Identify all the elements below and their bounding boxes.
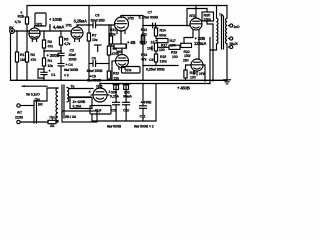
wire R5 drop (60, 31, 62, 37)
wire R10 column (108, 64, 110, 72)
svg-text:1кО: 1кО (233, 25, 239, 29)
capacitor C4 (58, 64, 64, 81)
wire AC top (20, 105, 34, 107)
resistor R12b (141, 36, 144, 45)
capacitor C3 (93, 22, 96, 28)
wire R3L stubs (206, 9, 208, 13)
svg-text:30мА: 30мА (123, 95, 132, 99)
svg-text:+ 4В: + 4В (127, 40, 135, 45)
wire R14 to R17h (155, 36, 157, 39)
svg-text:0, 25м/ 300В: 0, 25м/ 300В (139, 16, 159, 20)
resistor R3L (202, 12, 214, 21)
capacitor C7 (152, 23, 156, 29)
svg-text:0,25м/ 300В: 0,25м/ 300В (146, 68, 165, 72)
node dots rails (43, 5, 217, 85)
svg-text:2А: 2А (50, 124, 55, 128)
svg-text:УЛ6: УЛ6 (199, 72, 205, 76)
svg-text:30м/ 2КВ: 30м/ 2КВ (91, 19, 106, 23)
svg-text:С11: С11 (140, 115, 146, 119)
box above UL1a (35, 13, 46, 26)
svg-text:123мА: 123мА (194, 41, 206, 46)
svg-text:R17: R17 (170, 39, 176, 43)
wire UL6 right drop (203, 65, 205, 80)
svg-text:3,25мА: 3,25мА (74, 19, 87, 24)
svg-text:220В: 220В (15, 116, 24, 120)
resistor R19 (184, 70, 187, 78)
wire R11 drop (110, 25, 112, 36)
svg-text:4,7к: 4,7к (15, 20, 22, 24)
wire choke1 to C9 (115, 90, 117, 103)
svg-text:R19: R19 (190, 71, 196, 75)
wire PSU bottom rail (92, 120, 156, 122)
svg-text:УЛ1: УЛ1 (66, 24, 72, 28)
wire Tr2 to rectifier top (69, 88, 93, 90)
wire UL4 left stub (112, 60, 116, 62)
resistor R26 (25, 17, 28, 24)
svg-text:R13: R13 (141, 53, 147, 57)
resistor R7 (87, 33, 90, 41)
resistor R10 (107, 71, 110, 79)
svg-text:300к: 300к (159, 34, 167, 38)
svg-text:Ом: Ом (35, 98, 41, 102)
svg-text:100: 100 (190, 76, 196, 80)
resistor R14 (154, 28, 157, 36)
tube UL5 side stubs (91, 94, 93, 96)
wire PSU left column (125, 84, 127, 86)
svg-text:4,7к: 4,7к (64, 42, 71, 46)
transformer Tr1 primary (210, 6, 218, 51)
wire C7 row (143, 25, 190, 27)
svg-text:R11: R11 (110, 28, 116, 32)
svg-text:УЛ4: УЛ4 (125, 69, 131, 73)
wire grid row to R18 (158, 46, 169, 48)
wire R14 drop (155, 26, 157, 29)
svg-text:R2Б: R2Б (18, 15, 25, 19)
wire R9 column (108, 25, 110, 46)
box tube type (90, 106, 111, 115)
capacitor C9 (113, 102, 120, 121)
wire UL2 grid tap (187, 9, 207, 26)
terminal OUT3 (230, 45, 233, 48)
wire AC bottom (20, 121, 48, 123)
svg-text:С7: С7 (148, 11, 152, 15)
node F (108, 24, 110, 26)
svg-text:0,15А: 0,15А (73, 105, 82, 109)
node E (60, 50, 62, 52)
wire R7 column from rail (88, 6, 90, 34)
svg-text:100: 100 (159, 48, 165, 52)
terminal OUT2 (230, 37, 233, 40)
wire bottom ground rail (11, 79, 228, 81)
wire UL2 cathode path (184, 34, 193, 44)
svg-text:АС: АС (17, 111, 22, 115)
resistor R9 (107, 46, 110, 55)
resistor R18 (169, 45, 180, 49)
wire output taps (229, 25, 230, 27)
svg-text:8м/ 300В × 2: 8м/ 300В × 2 (134, 125, 154, 129)
wire R4 to C1 (43, 66, 45, 72)
resistor R17h (157, 39, 168, 43)
wire R11 to R12 (111, 44, 114, 46)
node H (155, 25, 157, 27)
wire UL6 left to R19 (186, 65, 192, 70)
AC terminal 2 (17, 120, 20, 123)
wire R19 to rail (185, 78, 187, 80)
resistor R4 (42, 58, 45, 66)
box label UL4 (122, 67, 141, 74)
svg-text:22к: 22к (114, 77, 120, 81)
svg-text:470к: 470к (112, 52, 120, 56)
wire C7 column down (142, 26, 144, 81)
capacitor C5 (93, 61, 96, 67)
wire x112 column (111, 61, 113, 80)
svg-text:6Ц4: 6Ц4 (95, 109, 101, 113)
svg-text:47к: 47к (141, 58, 147, 62)
resistor R17v (154, 43, 157, 51)
svg-text:+ 300В: + 300В (47, 53, 60, 58)
wire R17v to R15 (155, 51, 157, 54)
annotation arrow +100V (49, 25, 51, 32)
svg-text:100: 100 (170, 44, 176, 48)
wire R26 to node B (26, 24, 28, 52)
svg-text:10к: 10к (92, 38, 98, 42)
svg-text:R3: R3 (48, 40, 52, 44)
transformer Tr2 winding primary (56, 88, 58, 121)
fuse FU (48, 120, 56, 123)
svg-text:R15: R15 (160, 55, 166, 59)
resistor R1 (15, 52, 18, 62)
svg-text:С9: С9 (112, 108, 116, 112)
svg-text:Пр1: Пр1 (50, 115, 56, 119)
svg-text:УЛ1: УЛ1 (36, 23, 42, 27)
wire hbox left stub (156, 40, 157, 42)
wire R3 to +200V node (43, 48, 45, 51)
terminal OUT1 (230, 24, 233, 27)
node B (26, 30, 28, 32)
node G (110, 24, 112, 26)
svg-text:3в 3,1кО: 3в 3,1кО (26, 93, 40, 97)
transformer Tr1 core (222, 16, 224, 49)
svg-text:R4: R4 (48, 59, 52, 63)
svg-text:0,15А: 0,15А (110, 95, 119, 99)
tube UL1b (71, 25, 83, 42)
svg-text:С3: С3 (95, 14, 99, 18)
tube UL4 (116, 55, 129, 68)
AC terminal 1 (17, 104, 20, 107)
node J (204, 80, 206, 82)
svg-text:8м/ 500В: 8м/ 500В (87, 79, 102, 83)
svg-text:R22: R22 (184, 50, 190, 54)
svg-text:47к: 47к (141, 32, 147, 36)
wire Tr2 to rectifier bottom (69, 96, 91, 98)
wire R9 bottom (108, 55, 110, 64)
winding info box 1 (70, 98, 92, 109)
wire R15 to bias row (155, 62, 157, 66)
svg-text:R5: R5 (64, 38, 68, 42)
tube UL2 (190, 6, 202, 60)
choke L1 (113, 84, 120, 90)
wire input jack to grid (15, 30, 30, 32)
svg-text:20м/: 20м/ (69, 53, 76, 57)
node C (43, 30, 45, 32)
svg-text:R17: R17 (161, 44, 167, 48)
svg-text:470: 470 (31, 58, 37, 62)
tube UL5 rectifier (93, 84, 107, 103)
wire fuse to Tr2 (56, 121, 58, 123)
svg-text:1М: 1М (20, 58, 25, 62)
svg-text:200В: 200В (69, 58, 78, 62)
wire C3 to UL3 grid (96, 24, 115, 26)
capacitor C2 (58, 51, 64, 64)
wire R4 drop (43, 51, 45, 58)
wire jack ground drop (10, 33, 12, 80)
capacitor C1 (41, 72, 47, 80)
switch SA (34, 101, 37, 123)
tube UL6 (191, 59, 203, 75)
transformer Tr2 winding secondary (67, 88, 69, 102)
wire R10 to rail (108, 79, 110, 80)
svg-text:R14: R14 (160, 29, 166, 33)
wire R7 to bottom rail (88, 41, 90, 80)
wire B+ rail y85 (100, 83, 210, 85)
svg-text:R10: R10 (113, 72, 119, 76)
svg-text:47к: 47к (48, 45, 54, 49)
svg-text:УЛ3: УЛ3 (128, 17, 134, 21)
svg-text:5В / 3А: 5В / 3А (65, 115, 77, 119)
svg-text:× 3: × 3 (64, 74, 69, 78)
svg-text:R9: R9 (113, 47, 117, 51)
svg-text:2Вт: 2Вт (183, 58, 189, 62)
wire choke2 to C10 (125, 90, 127, 103)
svg-text:130к: 130к (160, 60, 168, 64)
wire C5 row (89, 63, 93, 65)
wire R1 drop (16, 31, 18, 52)
node D (60, 30, 62, 32)
ground stub (95, 45, 102, 52)
svg-text:С2: С2 (70, 49, 74, 53)
transformer Tr2 core (62, 85, 64, 118)
wire PSU right edge (155, 84, 157, 122)
svg-text:R2: R2 (31, 53, 35, 57)
node A (16, 30, 18, 32)
choke L2 (123, 84, 130, 90)
wire R1 to rail (16, 62, 18, 80)
svg-text:4,4мА: 4,4мА (53, 25, 64, 30)
wire +200V node (44, 50, 61, 52)
wire C5 to C6 column (96, 63, 109, 65)
resistor R12 (114, 44, 126, 48)
svg-text:100: 100 (147, 47, 153, 51)
capacitor C11 (140, 106, 147, 121)
svg-text:+ 100В: + 100В (49, 17, 62, 22)
wire switch to Tr2 top (34, 88, 58, 101)
wire interstage y31 (40, 30, 71, 32)
svg-text:R7: R7 (92, 34, 96, 38)
wire R3 drop (43, 31, 45, 40)
resistor R2 (25, 52, 28, 62)
resistor R5 (59, 37, 62, 45)
resistor R3 (42, 40, 45, 48)
wire rect box to bottom rail (91, 114, 93, 121)
svg-text:R1: R1 (20, 53, 24, 57)
winding info box 2 (62, 111, 97, 122)
svg-text:РР1/: РР1/ (140, 41, 147, 45)
input jack X1 (10, 29, 15, 34)
svg-text:+ С4: + С4 (66, 63, 73, 67)
svg-text:470к: 470к (109, 33, 117, 37)
svg-text:С6: С6 (92, 57, 96, 61)
svg-text:+ 445В: + 445В (141, 101, 152, 105)
wire R5 bottom (60, 45, 62, 51)
svg-text:4: 4 (89, 90, 91, 94)
wire R12 right to UL4 (126, 44, 128, 48)
wire C1 bypass loop (38, 69, 44, 78)
node I (195, 5, 197, 7)
tube UL4 pins (118, 67, 120, 70)
resistor R22 (181, 43, 192, 47)
svg-text:100: 100 (172, 55, 178, 59)
wire bias row (143, 65, 178, 67)
wire B+ riser (209, 38, 211, 84)
svg-text:С8: С8 (149, 58, 153, 62)
wire anode UL1b with current arrow (77, 24, 93, 26)
svg-text:R18: R18 (171, 51, 177, 55)
svg-text:С1: С1 (51, 73, 55, 77)
svg-text:УЛ5: УЛ5 (96, 85, 102, 89)
svg-text:8м/ 600В: 8м/ 600В (107, 125, 122, 129)
svg-text:ВЫХ: ВЫХ (230, 42, 239, 46)
wire top B+ rail (27, 6, 227, 18)
capacitor C10 (123, 102, 130, 121)
wire x213 column (212, 24, 214, 81)
resistor R11 (109, 36, 112, 44)
wire UL4 anode up (121, 48, 123, 54)
svg-text:ВХ: ВХ (9, 26, 14, 30)
svg-text:30м/ 150В: 30м/ 150В (87, 69, 103, 73)
ground output (224, 80, 231, 84)
svg-text:2× 425В: 2× 425В (73, 100, 86, 104)
svg-text:+ 450В: + 450В (177, 86, 190, 91)
svg-text:10к: 10к (48, 64, 54, 68)
resistor R15 (154, 54, 157, 62)
annotation arrow bottom left (22, 85, 47, 87)
svg-text:8м/ 300В: 8м/ 300В (64, 68, 79, 72)
tube UL3 (115, 16, 129, 45)
svg-text:100к: 100к (204, 18, 212, 22)
svg-text:С10: С10 (123, 108, 129, 112)
wire R2 to rail (26, 62, 28, 80)
svg-text:УЛ2: УЛ2 (189, 14, 195, 18)
transformer Tr1 secondary (226, 6, 227, 80)
wiper arrow RP1 (151, 46, 153, 51)
wire UL3 anode to C7 column (121, 16, 143, 26)
tube UL1a (29, 26, 40, 41)
